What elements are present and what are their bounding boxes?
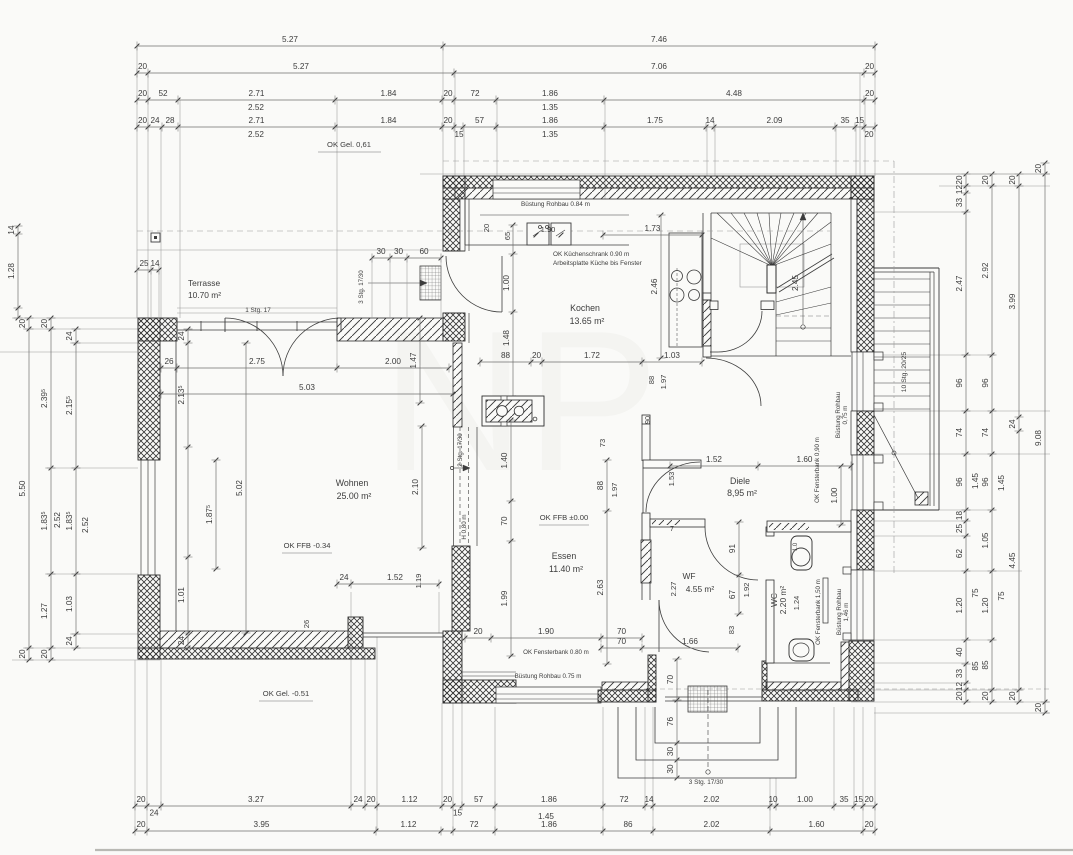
svg-text:20: 20 [865, 62, 875, 71]
svg-text:3 Stg. 17/30: 3 Stg. 17/30 [358, 270, 365, 304]
svg-text:15: 15 [454, 130, 464, 139]
svg-text:1.19: 1.19 [414, 574, 423, 589]
svg-text:OK Fensterbank 0,90 m: OK Fensterbank 0,90 m [814, 437, 821, 503]
svg-text:20: 20 [532, 351, 542, 360]
svg-text:7: 7 [670, 524, 674, 533]
svg-text:1.27: 1.27 [40, 603, 49, 619]
svg-text:24: 24 [353, 795, 363, 804]
svg-text:1.03: 1.03 [664, 351, 680, 360]
svg-text:1.03: 1.03 [65, 596, 74, 612]
svg-text:85: 85 [971, 661, 980, 671]
svg-text:20: 20 [443, 795, 453, 804]
svg-text:2 Stg. 17/30: 2 Stg. 17/30 [457, 433, 464, 467]
svg-text:1.53: 1.53 [667, 472, 676, 487]
svg-text:88: 88 [596, 481, 605, 491]
svg-text:91: 91 [728, 544, 737, 554]
svg-text:83: 83 [727, 626, 736, 634]
svg-text:74: 74 [981, 428, 990, 438]
svg-text:3.27: 3.27 [248, 795, 264, 804]
svg-text:2.47: 2.47 [955, 275, 964, 291]
svg-text:5.50: 5.50 [18, 480, 27, 496]
svg-text:1.86: 1.86 [541, 795, 557, 804]
svg-text:1.00: 1.00 [830, 487, 839, 503]
svg-text:24: 24 [150, 116, 160, 125]
svg-text:1.60: 1.60 [809, 820, 825, 829]
svg-text:2.09: 2.09 [767, 116, 783, 125]
svg-text:1.52: 1.52 [387, 573, 403, 582]
svg-text:20: 20 [138, 116, 148, 125]
svg-text:4.55 m²: 4.55 m² [686, 584, 715, 594]
svg-text:72: 72 [619, 795, 629, 804]
svg-text:70: 70 [500, 516, 509, 526]
svg-text:52: 52 [158, 89, 168, 98]
svg-text:2.75: 2.75 [249, 357, 265, 366]
svg-text:7.06: 7.06 [651, 62, 667, 71]
svg-text:2.27: 2.27 [669, 582, 678, 597]
svg-text:1.12: 1.12 [402, 795, 418, 804]
svg-text:1.35: 1.35 [542, 103, 558, 112]
svg-text:1.72: 1.72 [584, 351, 600, 360]
svg-text:3.99: 3.99 [1008, 293, 1017, 309]
svg-text:2.45: 2.45 [791, 275, 800, 291]
svg-text:1.45: 1.45 [997, 475, 1006, 491]
svg-text:1.00: 1.00 [502, 275, 511, 291]
svg-text:20: 20 [1034, 703, 1043, 713]
svg-text:5.27: 5.27 [282, 35, 298, 44]
svg-text:2.52: 2.52 [248, 130, 264, 139]
svg-text:20: 20 [955, 175, 964, 185]
svg-text:20: 20 [955, 691, 964, 701]
svg-text:28: 28 [165, 116, 175, 125]
svg-text:67: 67 [728, 590, 737, 600]
svg-text:1.84: 1.84 [381, 116, 397, 125]
svg-text:20: 20 [18, 319, 27, 329]
svg-text:24: 24 [339, 573, 349, 582]
svg-text:1.92: 1.92 [742, 583, 751, 598]
svg-text:35: 35 [839, 795, 849, 804]
svg-text:25: 25 [139, 259, 149, 268]
svg-text:20: 20 [18, 649, 27, 659]
svg-text:72: 72 [469, 820, 479, 829]
svg-text:1.90: 1.90 [538, 627, 554, 636]
svg-text:20: 20 [138, 62, 148, 71]
svg-text:20: 20 [473, 627, 483, 636]
svg-text:1.47: 1.47 [409, 352, 418, 368]
svg-text:74: 74 [955, 428, 964, 438]
svg-text:1.28: 1.28 [7, 263, 16, 279]
svg-text:10.70 m²: 10.70 m² [188, 290, 221, 300]
svg-text:1.12: 1.12 [401, 820, 417, 829]
svg-text:73: 73 [598, 439, 607, 447]
svg-text:OK Gel. 0,61: OK Gel. 0,61 [327, 140, 371, 149]
svg-text:96: 96 [981, 477, 990, 487]
svg-text:20: 20 [136, 820, 146, 829]
svg-text:1.00: 1.00 [797, 795, 813, 804]
svg-text:Arbeitsplatte Küche bis Fenste: Arbeitsplatte Küche bis Fenster [553, 260, 643, 267]
svg-text:20: 20 [443, 116, 453, 125]
svg-text:20: 20 [981, 691, 990, 701]
svg-text:10 Stg. 20/25: 10 Stg. 20/25 [901, 352, 908, 393]
svg-text:1.40: 1.40 [500, 452, 509, 468]
svg-text:35: 35 [840, 116, 850, 125]
svg-text:25: 25 [955, 524, 964, 534]
svg-text:2.20 m²: 2.20 m² [778, 586, 788, 615]
svg-text:Büstung Rohbau: Büstung Rohbau [836, 588, 843, 635]
svg-text:Büstung Rohbau 0.84 m: Büstung Rohbau 0.84 m [521, 201, 590, 208]
svg-text:3 Stg. 17/30: 3 Stg. 17/30 [689, 779, 724, 786]
svg-text:20: 20 [40, 319, 49, 329]
svg-text:20: 20 [40, 649, 49, 659]
svg-text:2.10: 2.10 [411, 479, 420, 495]
svg-text:OK FFB -0.34: OK FFB -0.34 [284, 541, 331, 550]
svg-text:12: 12 [955, 682, 964, 692]
svg-text:WF: WF [682, 571, 695, 581]
svg-text:13.65 m²: 13.65 m² [570, 316, 605, 326]
svg-text:26: 26 [302, 620, 311, 628]
svg-text:7.46: 7.46 [651, 35, 667, 44]
svg-text:30: 30 [666, 764, 675, 774]
svg-text:1.45: 1.45 [538, 812, 554, 821]
svg-text:24: 24 [65, 331, 74, 341]
svg-text:1.86: 1.86 [542, 89, 558, 98]
svg-text:24: 24 [65, 636, 74, 646]
svg-text:20: 20 [136, 795, 146, 804]
svg-text:15: 15 [854, 795, 864, 804]
svg-text:70: 70 [617, 627, 627, 636]
svg-text:1.20: 1.20 [955, 597, 964, 613]
svg-text:30: 30 [666, 747, 675, 757]
svg-text:0,75 m: 0,75 m [842, 406, 849, 425]
svg-text:Terrasse: Terrasse [188, 278, 220, 288]
svg-text:96: 96 [955, 477, 964, 487]
svg-text:1.97: 1.97 [659, 375, 668, 390]
svg-text:24: 24 [177, 636, 186, 646]
svg-text:20: 20 [443, 89, 453, 98]
svg-text:20: 20 [865, 89, 875, 98]
svg-text:26: 26 [164, 357, 174, 366]
svg-text:Diele: Diele [730, 476, 750, 486]
svg-text:2.52: 2.52 [248, 103, 264, 112]
svg-text:1.86: 1.86 [541, 820, 557, 829]
svg-text:H 0,80 m: H 0,80 m [461, 514, 468, 539]
svg-text:1.24: 1.24 [792, 596, 801, 610]
svg-text:88: 88 [647, 376, 656, 384]
svg-text:90: 90 [643, 416, 652, 424]
svg-text:14: 14 [644, 795, 654, 804]
svg-text:65: 65 [503, 232, 512, 240]
svg-text:2.02: 2.02 [704, 795, 720, 804]
svg-text:20: 20 [366, 795, 376, 804]
svg-text:75: 75 [971, 588, 980, 598]
svg-text:57: 57 [475, 116, 485, 125]
svg-text:OK Küchenschrank 0.90 m: OK Küchenschrank 0.90 m [553, 251, 629, 258]
svg-text:5.03: 5.03 [299, 383, 315, 392]
svg-text:1.05: 1.05 [981, 532, 990, 548]
svg-text:70: 70 [666, 675, 675, 685]
svg-text:9.08: 9.08 [1034, 430, 1043, 446]
svg-text:20: 20 [138, 89, 148, 98]
svg-text:15: 15 [855, 116, 865, 125]
svg-text:70: 70 [617, 637, 627, 646]
svg-text:76: 76 [666, 717, 675, 727]
svg-text:10: 10 [768, 795, 778, 804]
svg-text:2.63: 2.63 [596, 579, 605, 595]
svg-text:18: 18 [955, 511, 964, 521]
svg-text:24: 24 [149, 809, 159, 818]
svg-text:96: 96 [955, 378, 964, 388]
svg-text:15: 15 [453, 809, 463, 818]
svg-text:20: 20 [1008, 691, 1017, 701]
svg-text:30: 30 [394, 247, 404, 256]
svg-text:1.60: 1.60 [797, 455, 813, 464]
svg-text:62: 62 [955, 549, 964, 559]
svg-text:14: 14 [7, 225, 16, 235]
svg-text:1.99: 1.99 [500, 590, 509, 606]
svg-text:20: 20 [1034, 164, 1043, 174]
svg-text:86: 86 [623, 820, 633, 829]
svg-text:20: 20 [981, 175, 990, 185]
svg-text:72: 72 [470, 89, 480, 98]
svg-text:1.01: 1.01 [177, 587, 186, 603]
svg-text:1.84: 1.84 [381, 89, 397, 98]
svg-text:Büstung Rohbau: Büstung Rohbau [835, 391, 842, 438]
svg-text:14: 14 [150, 259, 160, 268]
svg-text:24: 24 [177, 331, 186, 341]
svg-text:Kochen: Kochen [570, 303, 600, 313]
svg-text:Wohnen: Wohnen [336, 478, 369, 488]
svg-text:2.02: 2.02 [704, 820, 720, 829]
svg-text:85: 85 [981, 660, 990, 670]
svg-text:88: 88 [501, 351, 511, 360]
svg-text:20: 20 [864, 820, 874, 829]
svg-text:24: 24 [1008, 419, 1017, 429]
svg-text:1.52: 1.52 [706, 455, 722, 464]
svg-text:2.52: 2.52 [53, 512, 62, 528]
svg-text:4.45: 4.45 [1008, 552, 1017, 568]
svg-text:96: 96 [981, 378, 990, 388]
svg-text:75: 75 [997, 591, 1006, 601]
svg-text:33: 33 [955, 669, 964, 679]
svg-text:2.71: 2.71 [249, 116, 265, 125]
svg-text:1.73: 1.73 [645, 224, 661, 233]
svg-text:1.86: 1.86 [542, 116, 558, 125]
svg-text:Essen: Essen [552, 551, 577, 561]
svg-text:40: 40 [955, 647, 964, 657]
svg-text:20: 20 [482, 224, 491, 232]
svg-text:20: 20 [864, 795, 874, 804]
svg-text:1.0: 1.0 [793, 542, 799, 551]
svg-text:OK Fensterbank 0.80 m: OK Fensterbank 0.80 m [523, 649, 589, 656]
svg-text:2.71: 2.71 [249, 89, 265, 98]
svg-text:1.66: 1.66 [682, 637, 698, 646]
svg-text:2.00: 2.00 [385, 357, 401, 366]
svg-text:14: 14 [705, 116, 715, 125]
svg-text:2.52: 2.52 [81, 517, 90, 533]
svg-text:20: 20 [864, 130, 874, 139]
svg-text:OK Gel. -0.51: OK Gel. -0.51 [263, 689, 309, 698]
svg-text:20: 20 [1008, 175, 1017, 185]
svg-text:3.95: 3.95 [254, 820, 270, 829]
svg-text:5.02: 5.02 [235, 480, 244, 496]
svg-text:5.27: 5.27 [293, 62, 309, 71]
svg-text:OK Fensterbank 1,50 m: OK Fensterbank 1,50 m [815, 579, 822, 645]
svg-text:1.75: 1.75 [647, 116, 663, 125]
svg-text:1.90: 1.90 [541, 225, 556, 234]
svg-text:30: 30 [376, 247, 386, 256]
svg-text:57: 57 [474, 795, 484, 804]
svg-text:11.40 m²: 11.40 m² [549, 564, 583, 574]
svg-text:4.48: 4.48 [726, 89, 742, 98]
svg-text:1.20: 1.20 [981, 597, 990, 613]
svg-text:1.45: 1.45 [971, 473, 980, 489]
svg-text:1,46 m: 1,46 m [843, 603, 850, 622]
svg-text:2.92: 2.92 [981, 262, 990, 278]
svg-text:1.48: 1.48 [502, 330, 511, 346]
svg-text:12: 12 [955, 185, 964, 195]
svg-text:2.46: 2.46 [650, 278, 659, 294]
svg-text:60: 60 [419, 247, 429, 256]
svg-text:25.00 m²: 25.00 m² [337, 491, 372, 501]
svg-text:1 Stg. 17: 1 Stg. 17 [245, 307, 271, 314]
svg-text:OK FFB ±0.00: OK FFB ±0.00 [540, 513, 588, 522]
svg-text:Büstung Rohbau 0.75 m: Büstung Rohbau 0.75 m [515, 673, 582, 680]
svg-text:1.97: 1.97 [610, 483, 619, 498]
svg-text:33: 33 [955, 198, 964, 208]
svg-text:1.35: 1.35 [542, 130, 558, 139]
svg-text:8,95 m²: 8,95 m² [727, 488, 757, 498]
